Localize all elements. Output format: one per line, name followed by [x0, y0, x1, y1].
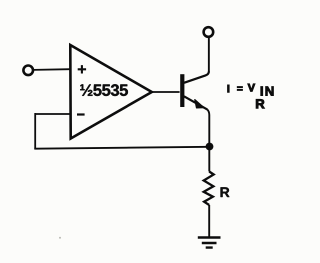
wire feedback left vertical	[34, 113, 36, 149]
wire noninverting input	[34, 68, 70, 71]
wire feedback bottom horizontal	[34, 147, 209, 149]
input terminal	[23, 66, 33, 76]
formula label equals sign	[237, 87, 242, 91]
transistor Q1 collector stroke	[184, 72, 209, 83]
wire inverting input	[35, 113, 70, 115]
transistor Q1 emitter stroke	[184, 96, 207, 109]
formula label I	[228, 85, 230, 92]
wire resistor to ground	[208, 205, 210, 237]
scan speckle dot	[59, 237, 61, 239]
ground	[198, 238, 221, 248]
formula label R denominator	[256, 99, 264, 108]
node junction dot	[206, 143, 214, 151]
wire collector to terminal	[208, 36, 210, 72]
formula label V	[248, 84, 255, 92]
wire op-amp output to base	[152, 91, 180, 93]
op-amp plus pin mark	[78, 65, 86, 73]
transistor Q1 base bar	[180, 74, 184, 107]
wire node to resistor	[208, 147, 210, 172]
op-amp value label 1/2 5535	[80, 84, 128, 96]
op-amp minus pin mark	[77, 113, 85, 115]
transistor Q1 emitter arrowhead	[195, 100, 204, 108]
resistor R value label	[221, 187, 230, 197]
formula label IN subscript	[261, 87, 274, 96]
op-amp U1	[70, 45, 152, 139]
wire emitter down to node	[207, 110, 209, 147]
output terminal	[204, 27, 214, 37]
resistor R zigzag	[204, 172, 214, 206]
